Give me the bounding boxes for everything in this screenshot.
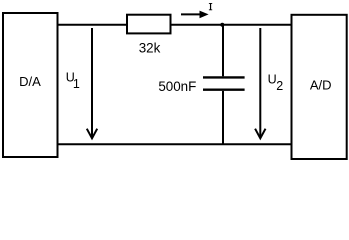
svg-text:500nF: 500nF (158, 79, 196, 94)
svg-text:1: 1 (73, 77, 80, 91)
capacitor C1 500nF (158, 25, 244, 145)
block U1 D/A converter (3, 13, 58, 157)
node junction (resistor/capacitor/A-D net) (220, 23, 224, 27)
svg-text:32k: 32k (139, 41, 161, 56)
voltage arrow U1 (66, 28, 98, 138)
current arrow I (181, 3, 212, 18)
resistor R1 32k (127, 15, 171, 56)
voltage arrow U2 (255, 28, 283, 138)
svg-text:A/D: A/D (310, 77, 332, 92)
wire top (D/A output to A/D input) (58, 24, 292, 26)
svg-text:D/A: D/A (19, 74, 41, 89)
block U2 A/D converter (292, 15, 347, 159)
svg-text:2: 2 (276, 79, 283, 93)
wire bottom (common return) (58, 143, 292, 145)
